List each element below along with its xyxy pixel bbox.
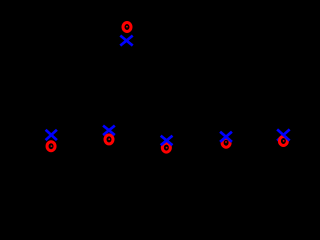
crossed double bond at N3, "/" line (blue, under ring): [103, 126, 115, 136]
atom O3 (red O ring): [105, 135, 113, 144]
atom O4 (red O ring): [162, 143, 170, 152]
bond C7-N1 (black on black background, invisible as in reference): [125, 46, 128, 62]
center dot of O4: [166, 147, 168, 149]
group B: N-O pair: [46, 130, 57, 151]
crossed double bond at N3, "\" line (blue, over ring): [103, 126, 115, 136]
atom O1 (red O ring): [123, 23, 131, 32]
atom O6 (red O ring): [279, 137, 287, 146]
center dot of O2: [51, 145, 53, 147]
center dot of O3: [108, 138, 110, 140]
group E: N-O pair: [220, 132, 232, 148]
crossed double bond at N4 (blue X): [161, 136, 173, 146]
crossed double bond at N6, "\" line (blue, over ring): [277, 129, 290, 140]
center dot of O5: [225, 141, 227, 143]
atom O2 (red O ring): [47, 142, 55, 151]
center dot of O1: [126, 26, 128, 28]
crossed double bond at N1 (blue X): [120, 36, 132, 46]
center dot of O6: [283, 140, 285, 142]
group D: N-O pair: [161, 136, 173, 152]
group A: N-O pair: [120, 23, 132, 46]
crossed double bond at N6, "/" line (blue, under ring): [277, 129, 290, 140]
crossed double bond at N2 (blue X): [46, 130, 57, 140]
group C: N-O pair: [103, 126, 115, 144]
atom O5 (red O ring): [222, 138, 230, 147]
backbone chain bonds (black on black background, invisible as in reference): [22, 80, 283, 132]
crossed double bond at N5 (blue X): [220, 132, 232, 142]
group F: N-O pair: [277, 129, 290, 145]
